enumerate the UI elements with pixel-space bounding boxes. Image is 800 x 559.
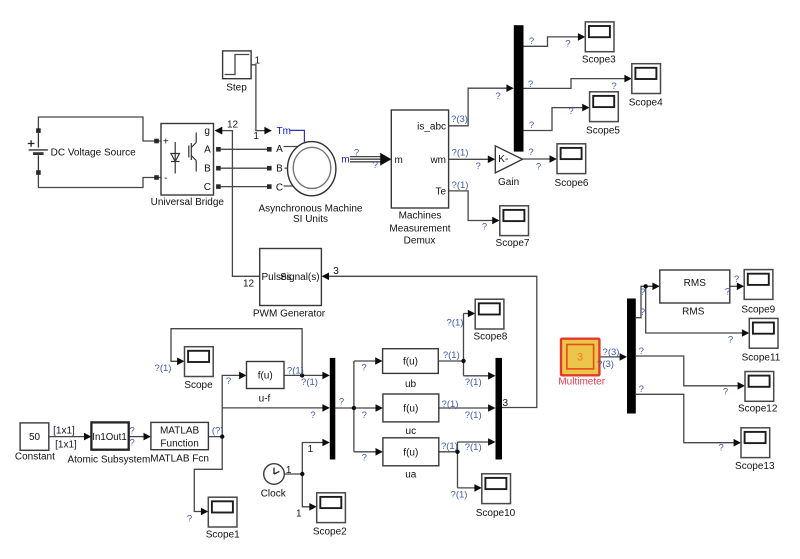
svg-text:?: ? — [639, 384, 644, 395]
svg-text:?: ? — [130, 438, 135, 449]
svg-text:f(u): f(u) — [403, 357, 418, 368]
svg-text:In1Out1: In1Out1 — [92, 432, 126, 443]
svg-text:Te: Te — [435, 186, 446, 197]
svg-text:?: ? — [362, 410, 367, 421]
svg-text:RMS: RMS — [684, 278, 707, 289]
svg-text:?: ? — [354, 148, 359, 159]
svg-text:1: 1 — [286, 465, 292, 476]
svg-text:?: ? — [640, 287, 645, 298]
svg-text:?: ? — [536, 162, 541, 173]
svg-text:Scope6: Scope6 — [555, 178, 589, 189]
svg-text:12: 12 — [243, 279, 255, 290]
svg-text:?: ? — [529, 36, 534, 47]
svg-text:Scope: Scope — [184, 380, 213, 391]
svg-text:Scope9: Scope9 — [741, 305, 775, 316]
svg-text:?(1): ?(1) — [452, 180, 469, 191]
svg-text:A: A — [204, 144, 211, 155]
svg-text:?: ? — [528, 147, 533, 158]
svg-text:1: 1 — [255, 56, 261, 67]
svg-text:(?): (?) — [212, 425, 224, 436]
svg-text:?(3): ?(3) — [597, 359, 614, 370]
svg-text:Clock: Clock — [261, 489, 287, 500]
svg-text:?(1): ?(1) — [465, 442, 482, 453]
svg-text:?: ? — [723, 387, 728, 398]
svg-text:Scope1: Scope1 — [206, 529, 240, 540]
svg-text:?: ? — [719, 443, 724, 454]
svg-text:Scope11: Scope11 — [742, 352, 781, 363]
svg-text:?(1): ?(1) — [441, 441, 458, 452]
svg-text:PWM Generator: PWM Generator — [253, 309, 326, 320]
svg-text:Scope2: Scope2 — [313, 527, 347, 538]
svg-text:?(1): ?(1) — [465, 410, 482, 421]
svg-text:?(1): ?(1) — [443, 350, 460, 361]
svg-text:uc: uc — [406, 426, 417, 437]
svg-text:Scope10: Scope10 — [476, 508, 516, 519]
svg-text:Gain: Gain — [498, 177, 519, 188]
svg-text:RMS: RMS — [682, 307, 705, 318]
svg-text:?: ? — [361, 363, 366, 374]
svg-text:-: - — [164, 173, 167, 184]
svg-text:1: 1 — [296, 509, 302, 520]
svg-text:?: ? — [482, 221, 487, 232]
svg-text:ua: ua — [405, 469, 417, 480]
svg-text:?: ? — [373, 160, 378, 171]
svg-text:?: ? — [528, 79, 533, 90]
svg-text:f(u): f(u) — [258, 371, 273, 382]
svg-text:3: 3 — [333, 266, 339, 277]
svg-text:SI Units: SI Units — [293, 214, 328, 225]
svg-text:?(1): ?(1) — [465, 377, 482, 388]
svg-text:MATLAB Fcn: MATLAB Fcn — [150, 454, 209, 465]
svg-text:Scope3: Scope3 — [582, 55, 616, 66]
svg-text:[1x1]: [1x1] — [55, 439, 77, 450]
svg-text:?(1): ?(1) — [301, 377, 318, 388]
svg-text:B: B — [276, 164, 283, 175]
svg-text:u-f: u-f — [259, 393, 271, 404]
svg-text:A: A — [276, 144, 283, 155]
svg-text:Machines: Machines — [399, 211, 442, 222]
svg-text:?(1): ?(1) — [155, 363, 172, 374]
svg-text:Universal Bridge: Universal Bridge — [151, 197, 225, 208]
svg-text:is_abc: is_abc — [417, 121, 446, 132]
svg-text:m: m — [395, 155, 403, 166]
svg-text:?: ? — [226, 376, 231, 387]
svg-text:C: C — [204, 182, 211, 193]
svg-text:MATLAB: MATLAB — [160, 426, 200, 437]
svg-text:Tm: Tm — [277, 126, 291, 137]
svg-text:3: 3 — [503, 398, 509, 409]
svg-text:B: B — [204, 164, 211, 175]
svg-text:?: ? — [495, 91, 500, 102]
svg-text:Constant: Constant — [15, 452, 55, 463]
svg-text:C: C — [276, 182, 283, 193]
svg-text:+: + — [163, 136, 169, 147]
svg-text:?(3): ?(3) — [603, 347, 620, 358]
svg-text:12: 12 — [227, 120, 239, 131]
svg-text:?: ? — [187, 513, 192, 524]
svg-text:1: 1 — [253, 131, 259, 142]
svg-text:?: ? — [640, 307, 645, 318]
svg-text:Function: Function — [160, 439, 198, 450]
svg-text:?: ? — [475, 161, 480, 172]
svg-text:f(u): f(u) — [403, 404, 418, 415]
svg-text:Scope8: Scope8 — [473, 332, 507, 343]
svg-text:g: g — [204, 126, 210, 137]
svg-text:Demux: Demux — [404, 236, 436, 247]
svg-text:Step: Step — [226, 83, 247, 94]
svg-text:3: 3 — [577, 352, 583, 364]
svg-text:?: ? — [310, 410, 315, 421]
svg-text:Scope5: Scope5 — [586, 126, 620, 137]
svg-text:wm: wm — [429, 155, 446, 166]
svg-text:f(u): f(u) — [403, 447, 418, 458]
svg-text:?: ? — [728, 334, 733, 345]
svg-text:?: ? — [734, 274, 739, 285]
svg-text:ub: ub — [405, 379, 417, 390]
svg-text:Measurement: Measurement — [389, 223, 450, 234]
svg-text:?(1): ?(1) — [447, 317, 464, 328]
svg-text:Scope13: Scope13 — [735, 461, 775, 472]
svg-text:?: ? — [529, 120, 534, 131]
svg-text:K-: K- — [498, 154, 508, 165]
svg-text:Multimeter: Multimeter — [558, 377, 605, 388]
svg-text:?: ? — [130, 425, 135, 436]
svg-text:?(1): ?(1) — [442, 399, 459, 410]
svg-text:?: ? — [565, 39, 570, 50]
svg-text:?: ? — [568, 106, 573, 117]
svg-text:?(1): ?(1) — [452, 147, 469, 158]
svg-text:?: ? — [339, 397, 344, 408]
svg-text:Atomic Subsystem: Atomic Subsystem — [67, 455, 150, 466]
svg-text:Signal(s): Signal(s) — [280, 272, 319, 283]
svg-text:Scope4: Scope4 — [629, 98, 663, 109]
svg-text:?(3): ?(3) — [451, 114, 468, 125]
svg-text:?: ? — [639, 346, 644, 357]
svg-text:?: ? — [725, 287, 730, 298]
svg-text:?(1): ?(1) — [451, 490, 468, 501]
svg-text:[1x1]: [1x1] — [53, 425, 75, 436]
svg-text:Scope12: Scope12 — [738, 404, 778, 415]
svg-text:?(1): ?(1) — [287, 365, 304, 376]
svg-text:m: m — [341, 154, 349, 165]
svg-text:Scope7: Scope7 — [496, 238, 530, 249]
svg-text:1: 1 — [308, 444, 314, 455]
svg-text:50: 50 — [29, 432, 41, 443]
svg-text:?: ? — [611, 81, 616, 92]
svg-text:DC Voltage Source: DC Voltage Source — [51, 148, 136, 159]
svg-text:?: ? — [362, 452, 367, 463]
